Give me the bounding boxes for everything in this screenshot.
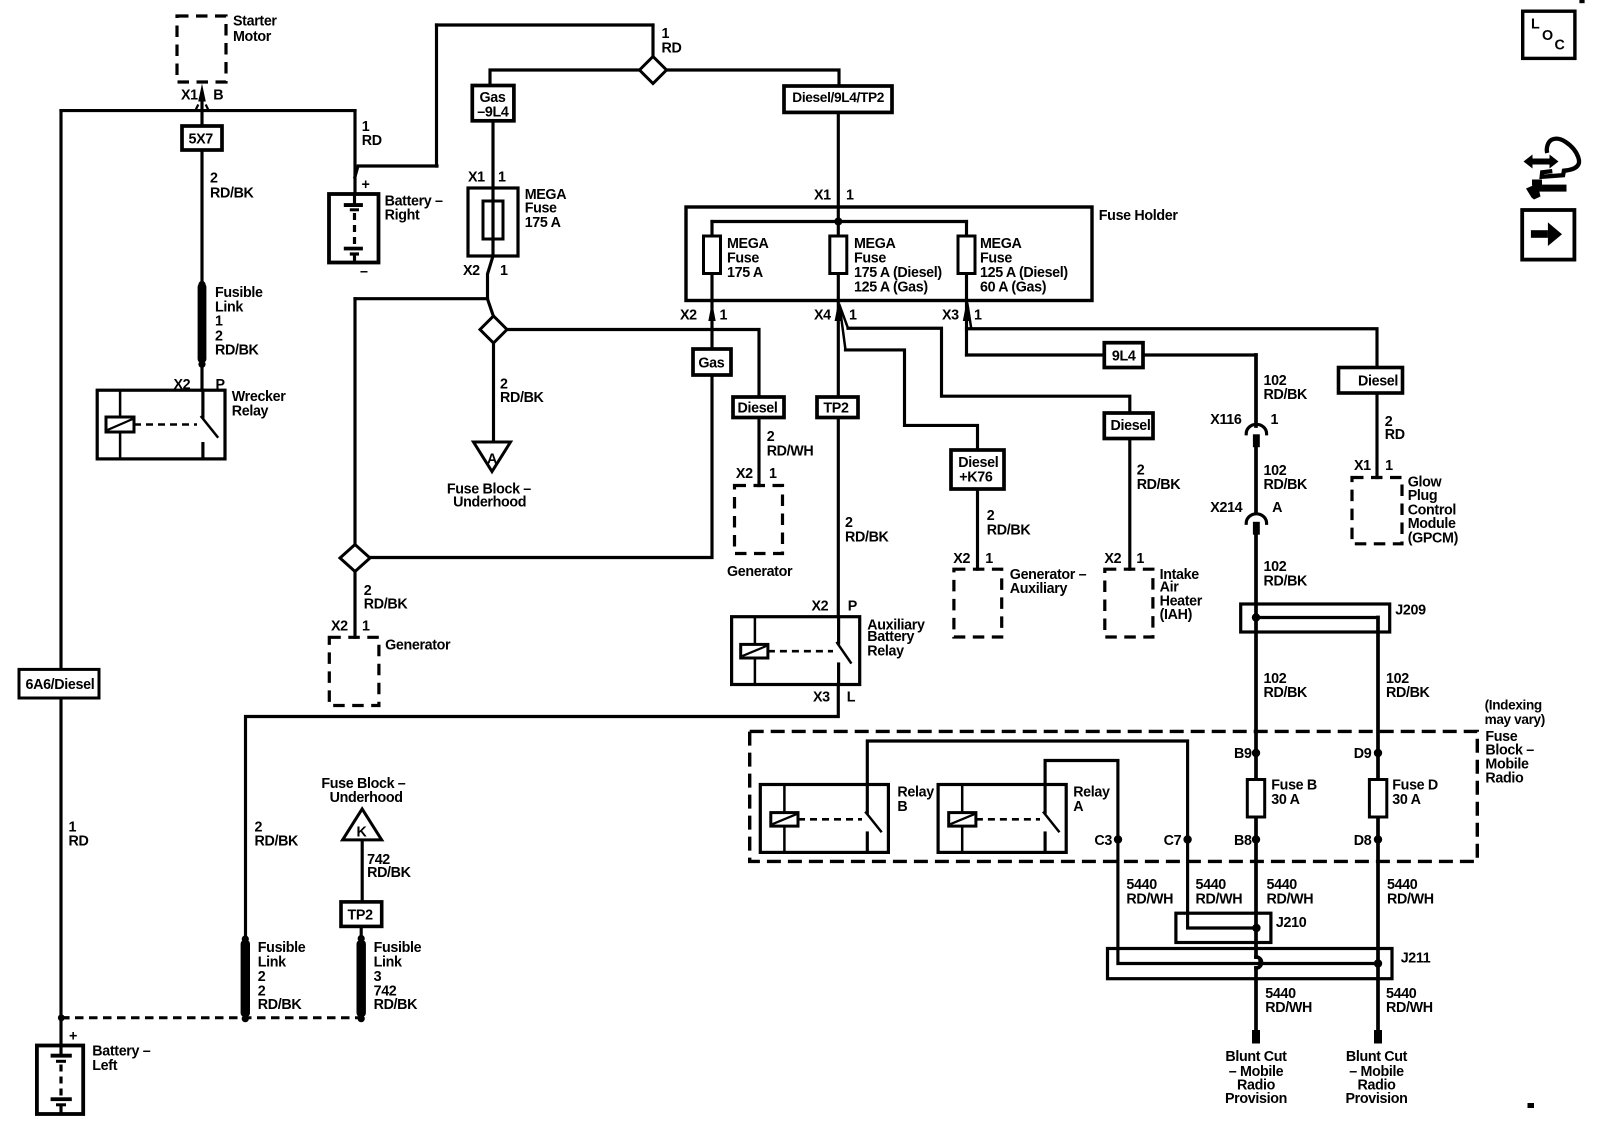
svg-text:Auxiliary: Auxiliary (1010, 581, 1068, 597)
svg-text:Provision: Provision (1225, 1091, 1287, 1107)
svg-text:B8: B8 (1234, 833, 1252, 849)
svg-text:1: 1 (846, 187, 854, 203)
svg-text:1: 1 (985, 551, 993, 567)
svg-text:125 A (Gas): 125 A (Gas) (854, 280, 928, 296)
svg-text:1: 1 (1385, 458, 1393, 474)
svg-text:B: B (213, 88, 223, 104)
svg-text:–: – (360, 264, 368, 280)
svg-text:X116: X116 (1210, 412, 1242, 428)
svg-text:RD/BK: RD/BK (1264, 387, 1309, 403)
svg-text:(Indexing: (Indexing (1485, 697, 1542, 712)
svg-text:60 A (Gas): 60 A (Gas) (980, 280, 1047, 296)
svg-text:Motor: Motor (233, 29, 272, 45)
svg-text:may vary): may vary) (1485, 712, 1545, 727)
svg-text:Diesel: Diesel (1358, 374, 1398, 390)
svg-text:RD: RD (362, 133, 382, 149)
svg-text:RD/WH: RD/WH (767, 443, 814, 459)
svg-text:Starter: Starter (233, 13, 277, 29)
svg-text:Diesel: Diesel (1111, 418, 1151, 434)
svg-text:1: 1 (720, 308, 728, 324)
svg-text:J211: J211 (1401, 950, 1431, 966)
svg-text:RD/BK: RD/BK (1137, 477, 1182, 493)
svg-text:C: C (1555, 38, 1565, 54)
svg-text:(IAH): (IAH) (1160, 607, 1193, 623)
svg-text:RD/BK: RD/BK (500, 390, 545, 406)
svg-text:RD/BK: RD/BK (1264, 685, 1309, 701)
svg-text:RD/WH: RD/WH (1387, 891, 1434, 907)
svg-text:X1: X1 (1354, 458, 1371, 474)
svg-text:X2: X2 (463, 263, 480, 279)
svg-text:RD/BK: RD/BK (374, 997, 419, 1013)
svg-text:RD/BK: RD/BK (367, 865, 412, 881)
svg-text:+K76: +K76 (959, 470, 993, 486)
svg-text:J209: J209 (1395, 603, 1426, 619)
svg-text:X2: X2 (1104, 551, 1121, 567)
svg-text:Blunt Cut: Blunt Cut (1346, 1049, 1408, 1065)
svg-text:RD: RD (662, 41, 682, 57)
svg-text:1: 1 (769, 466, 777, 482)
svg-text:Fusible: Fusible (258, 940, 306, 956)
svg-text:A: A (1272, 500, 1282, 516)
svg-text:RD: RD (1385, 427, 1405, 443)
svg-text:Gas: Gas (698, 356, 724, 372)
svg-text:Generator: Generator (727, 564, 793, 580)
svg-text:RD/BK: RD/BK (845, 530, 890, 546)
svg-text:X2: X2 (174, 377, 191, 393)
svg-text:L: L (847, 690, 856, 706)
svg-text:RD/BK: RD/BK (210, 185, 255, 201)
svg-text:2: 2 (845, 515, 853, 531)
svg-text:RD/WH: RD/WH (1126, 891, 1173, 907)
svg-text:RD/WH: RD/WH (1267, 891, 1314, 907)
svg-text:X2: X2 (953, 551, 970, 567)
svg-text:30 A: 30 A (1271, 792, 1299, 808)
svg-text:O: O (1542, 28, 1553, 44)
svg-text:B: B (897, 799, 907, 815)
svg-text:X214: X214 (1210, 500, 1242, 516)
svg-text:TP2: TP2 (823, 401, 849, 417)
svg-text:X3: X3 (942, 308, 959, 324)
svg-text:Underhood: Underhood (330, 790, 403, 806)
svg-text:Relay: Relay (867, 644, 904, 660)
svg-text:9L4: 9L4 (1112, 348, 1136, 364)
svg-text:1: 1 (215, 314, 223, 330)
svg-text:Relay: Relay (232, 403, 269, 419)
svg-text:P: P (216, 377, 226, 393)
svg-text:(GPCM): (GPCM) (1408, 531, 1459, 547)
svg-text:P: P (848, 599, 858, 615)
svg-text:A: A (487, 452, 497, 468)
svg-text:C3: C3 (1094, 833, 1112, 849)
svg-text:1: 1 (1271, 412, 1279, 428)
svg-text:1: 1 (662, 26, 670, 42)
svg-text:X2: X2 (812, 599, 829, 615)
svg-text:RD/BK: RD/BK (364, 597, 409, 613)
svg-text:RD: RD (69, 833, 89, 849)
svg-text:1: 1 (498, 169, 506, 185)
svg-text:Radio: Radio (1485, 771, 1524, 787)
svg-text:1: 1 (1136, 551, 1144, 567)
svg-text:RD/WH: RD/WH (1196, 891, 1243, 907)
svg-text:Underhood: Underhood (453, 495, 526, 511)
svg-text:RD/BK: RD/BK (1264, 573, 1309, 589)
svg-text:–9L4: –9L4 (477, 104, 509, 120)
svg-text:2: 2 (210, 171, 218, 187)
svg-text:X4: X4 (814, 308, 831, 324)
svg-text:X2: X2 (736, 466, 753, 482)
svg-text:RD/BK: RD/BK (255, 833, 300, 849)
svg-text:RD/BK: RD/BK (1264, 477, 1309, 493)
svg-text:Blunt Cut: Blunt Cut (1225, 1049, 1287, 1065)
svg-text:1: 1 (500, 263, 508, 279)
svg-text:1: 1 (974, 308, 982, 324)
svg-text:RD/BK: RD/BK (258, 997, 303, 1013)
svg-text:X3: X3 (813, 690, 830, 706)
svg-text:Right: Right (385, 208, 420, 224)
svg-text:C7: C7 (1164, 833, 1182, 849)
svg-text:Left: Left (92, 1058, 117, 1074)
svg-text:X2: X2 (331, 619, 348, 635)
svg-text:RD/BK: RD/BK (215, 342, 260, 358)
svg-text:K: K (357, 825, 368, 841)
svg-text:6A6/Diesel: 6A6/Diesel (26, 677, 95, 693)
svg-text:TP2: TP2 (348, 908, 374, 924)
svg-text:+: + (69, 1029, 77, 1045)
svg-text:Diesel: Diesel (738, 401, 778, 417)
svg-text:X2: X2 (680, 308, 697, 324)
svg-text:Generator: Generator (385, 637, 451, 653)
svg-text:X1: X1 (181, 88, 198, 104)
svg-text:175 A: 175 A (525, 215, 561, 231)
svg-text:Diesel/9L4/TP2: Diesel/9L4/TP2 (792, 90, 884, 105)
svg-text:RD/BK: RD/BK (1386, 685, 1431, 701)
svg-text:J210: J210 (1276, 915, 1307, 931)
svg-text:Provision: Provision (1346, 1091, 1408, 1107)
svg-text:1: 1 (849, 308, 857, 324)
svg-text:X1: X1 (468, 169, 485, 185)
svg-text:RD/WH: RD/WH (1386, 1000, 1433, 1016)
svg-text:RD/WH: RD/WH (1265, 1000, 1312, 1016)
svg-text:1: 1 (362, 619, 370, 635)
svg-text:D8: D8 (1354, 833, 1372, 849)
svg-text:30 A: 30 A (1392, 792, 1420, 808)
svg-text:B9: B9 (1234, 746, 1252, 762)
svg-text:A: A (1073, 799, 1083, 815)
svg-text:X1: X1 (814, 187, 831, 203)
svg-text:Fuse Holder: Fuse Holder (1099, 208, 1179, 224)
svg-text:L: L (1531, 17, 1540, 33)
svg-text:RD/BK: RD/BK (987, 522, 1032, 538)
svg-text:D9: D9 (1354, 746, 1372, 762)
svg-text:5X7: 5X7 (189, 132, 214, 148)
svg-text:175 A: 175 A (727, 265, 763, 281)
svg-text:+: + (362, 177, 370, 193)
svg-text:Fusible: Fusible (374, 940, 422, 956)
